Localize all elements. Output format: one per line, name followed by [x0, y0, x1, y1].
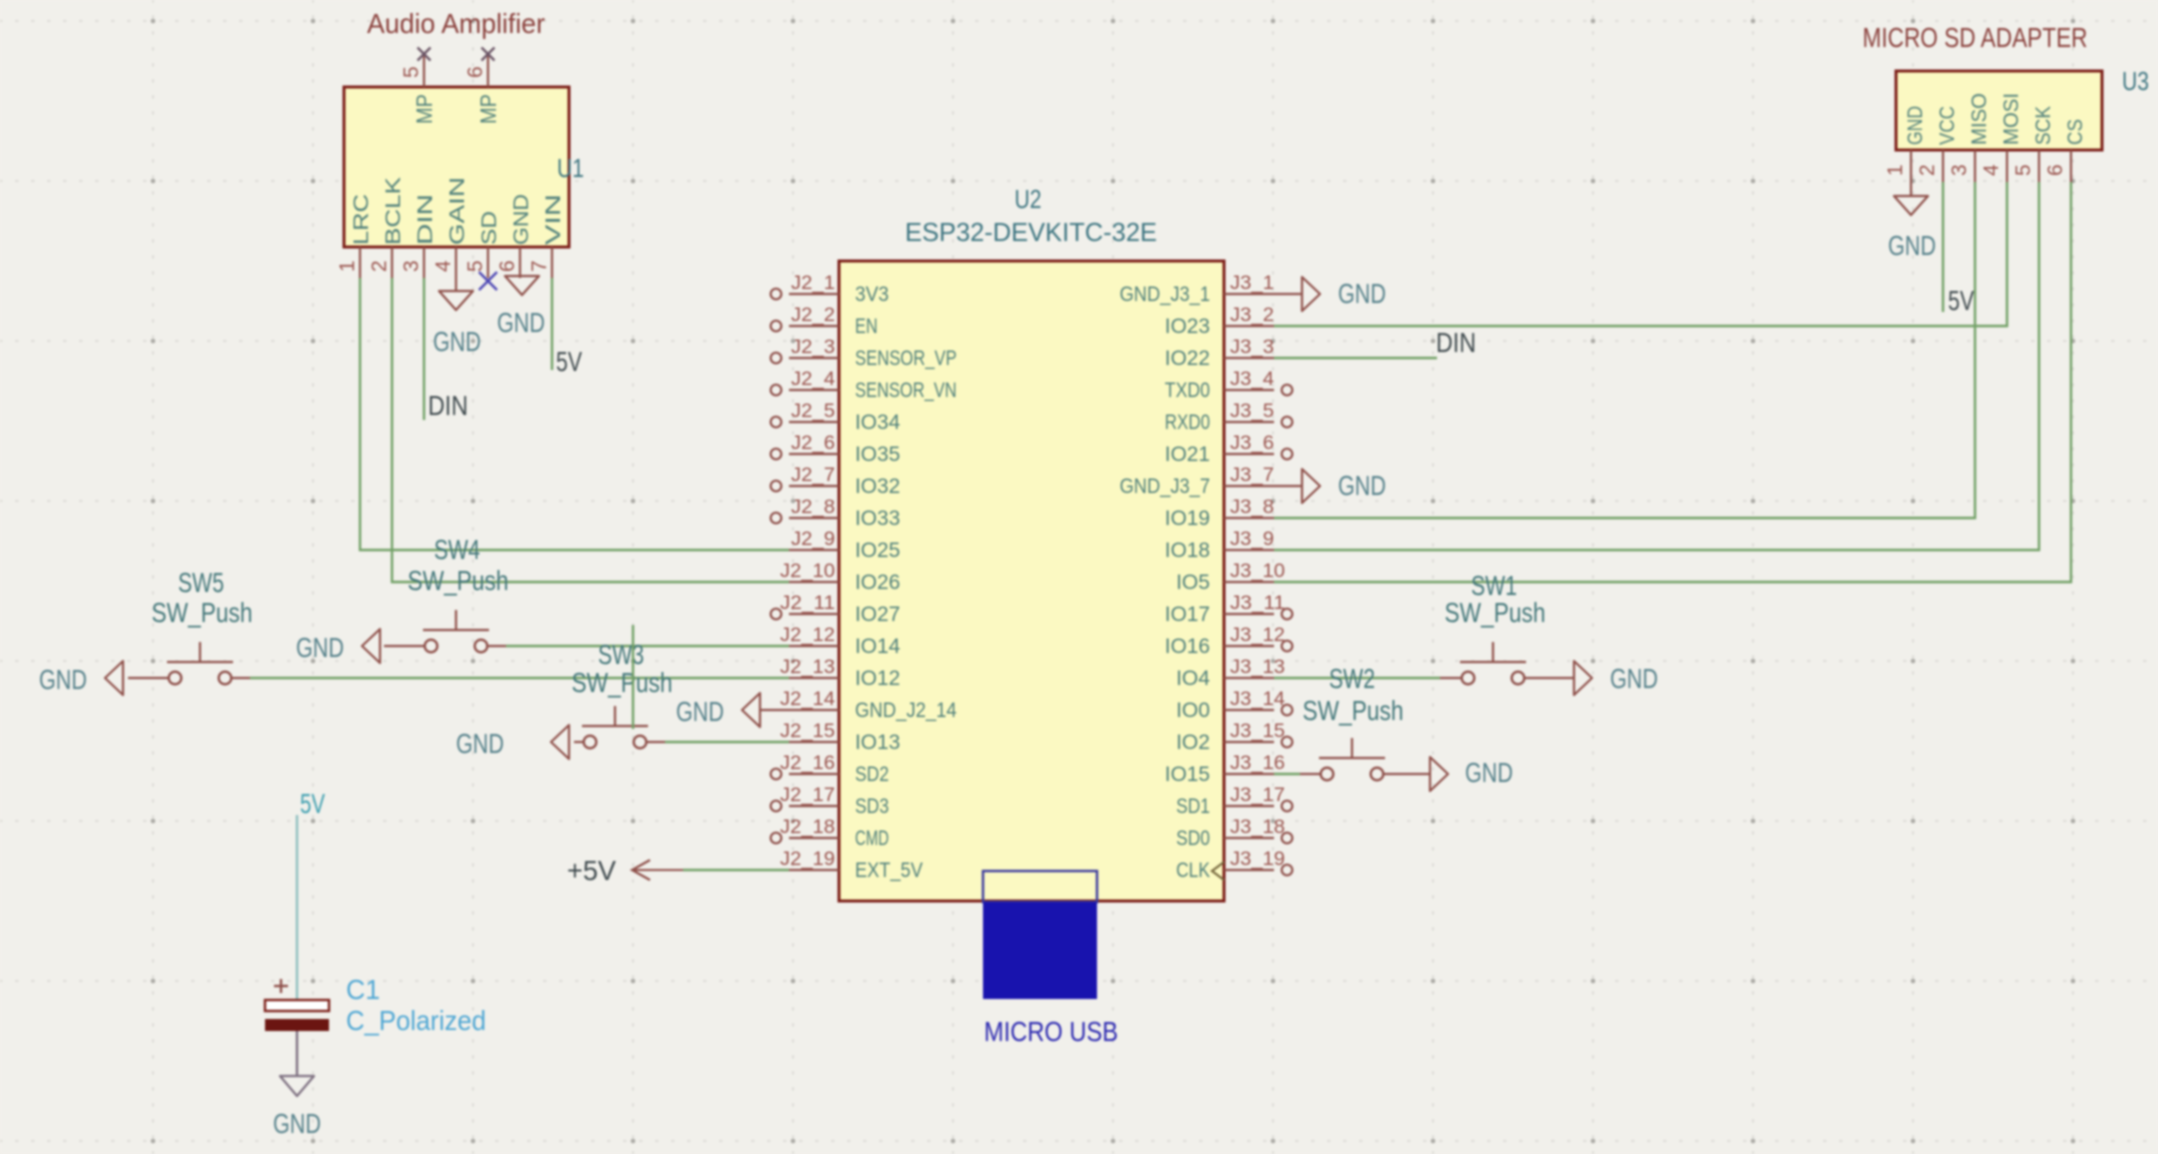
svg-text:SW4: SW4 — [434, 534, 480, 565]
svg-text:J2_8: J2_8 — [791, 496, 835, 518]
node DIN (left) — [428, 390, 468, 421]
connector U3 MICRO SD ADAPTER title — [1863, 22, 2088, 53]
svg-text:J2_4: J2_4 — [791, 368, 835, 390]
switch SW4 symbol — [423, 610, 489, 652]
svg-text:3: 3 — [400, 260, 423, 272]
svg-text:2: 2 — [1916, 164, 1939, 176]
IC U2 pin J3_15 IO2 — [1176, 720, 1292, 754]
svg-text:GND: GND — [510, 194, 533, 245]
wire BCLK to U2 IO26 — [392, 278, 789, 582]
svg-text:GAIN: GAIN — [446, 177, 469, 245]
svg-text:U1: U1 — [557, 153, 584, 183]
svg-text:J2_2: J2_2 — [791, 304, 835, 326]
connector U3 pin 2 VCC — [1916, 106, 1959, 182]
wire U1 VIN to 5V — [551, 278, 553, 370]
ground label GND (SW5) — [39, 664, 87, 695]
wire IO4 to SW1 — [1274, 677, 1440, 679]
svg-text:IO13: IO13 — [855, 731, 900, 754]
svg-text:IO16: IO16 — [1165, 635, 1210, 658]
wire U1 DIN net stub — [423, 278, 425, 420]
IC U2 pin J3_1 GND_J3_1 — [1120, 272, 1274, 306]
ground GND J3_1 — [1302, 277, 1320, 311]
svg-text:GND: GND — [1338, 470, 1386, 501]
svg-text:IO12: IO12 — [855, 667, 900, 690]
svg-text:MP: MP — [412, 94, 437, 124]
ground label GND (J2_14) — [676, 696, 724, 727]
wire 5V to C1 — [296, 815, 298, 1000]
svg-text:IO5: IO5 — [1176, 571, 1210, 594]
ground label GND (U1 GAIN) — [433, 326, 481, 357]
svg-text:5: 5 — [464, 260, 487, 272]
svg-text:J2_14: J2_14 — [780, 688, 835, 710]
svg-text:J2_15: J2_15 — [780, 720, 835, 742]
IC U2 pin J2_9 IO25 — [789, 528, 900, 562]
node 5V (U3 VCC) — [1948, 285, 1975, 316]
IC U2 pin J2_15 IO13 — [780, 720, 900, 754]
svg-text:IO14: IO14 — [855, 635, 901, 658]
IC U2 pin J3_13 IO4 — [1176, 656, 1285, 690]
no-connect flag U1 pin 5 — [418, 48, 431, 61]
svg-text:GND: GND — [1888, 230, 1936, 261]
svg-text:DIN: DIN — [414, 194, 437, 245]
IC U2 pin J2_5 IO34 — [771, 400, 901, 434]
IC U2 body — [839, 261, 1224, 901]
op-amp U1 body — [344, 87, 569, 247]
svg-text:2: 2 — [368, 260, 391, 272]
op-amp U1 pin 2 BCLK — [368, 177, 405, 278]
svg-text:5V: 5V — [556, 346, 583, 377]
svg-text:GND_J3_1: GND_J3_1 — [1120, 283, 1210, 306]
svg-text:MICRO USB: MICRO USB — [984, 1016, 1118, 1047]
svg-text:SW5: SW5 — [178, 567, 224, 598]
connector U3 pin 4 MOSI — [1980, 93, 2023, 182]
wire SW5 left lead to ground — [128, 677, 169, 679]
svg-text:MICRO SD ADAPTER: MICRO SD ADAPTER — [1863, 22, 2088, 53]
svg-text:CMD: CMD — [855, 827, 889, 850]
svg-text:IO15: IO15 — [1165, 763, 1210, 786]
wire IO15 to SW2 — [1274, 773, 1300, 775]
IC U2 pin J2_19 EXT_5V — [780, 848, 923, 882]
svg-text:IO17: IO17 — [1165, 603, 1210, 626]
connector MICRO USB label — [984, 1016, 1118, 1047]
svg-text:J2_11: J2_11 — [780, 592, 835, 614]
svg-text:IO22: IO22 — [1165, 347, 1210, 370]
svg-text:GND: GND — [456, 728, 504, 759]
op-amp U1 pin 4 GAIN — [432, 177, 469, 278]
ground GND SW4 — [362, 629, 380, 663]
wire U3 GND pin to ground — [1910, 182, 1912, 196]
ground GND J2_14 — [742, 693, 760, 727]
svg-text:1: 1 — [1884, 164, 1907, 176]
ground U1 GAIN — [439, 291, 473, 310]
svg-text:J3_13: J3_13 — [1230, 656, 1285, 678]
IC U2 pin J3_9 IO18 — [1165, 528, 1274, 562]
op-amp U1 pin 3 DIN — [400, 194, 437, 278]
svg-text:J2_13: J2_13 — [780, 656, 835, 678]
svg-text:5: 5 — [2012, 164, 2035, 176]
svg-text:4: 4 — [432, 260, 455, 272]
svg-text:SD2: SD2 — [855, 763, 889, 786]
svg-text:J3_7: J3_7 — [1230, 464, 1274, 486]
svg-text:CLK: CLK — [1176, 859, 1210, 882]
switch SW4 value SW_Push — [408, 565, 509, 596]
wire SW3 left lead to ground — [574, 741, 584, 743]
svg-text:IO2: IO2 — [1176, 731, 1210, 754]
ground GND SW1 — [1574, 661, 1592, 695]
svg-text:GND: GND — [39, 664, 87, 695]
svg-text:GND: GND — [1338, 278, 1386, 309]
IC U2 pin J2_3 SENSOR_VP — [771, 336, 957, 370]
svg-text:6: 6 — [496, 260, 519, 272]
wire J3_1 to ground — [1274, 293, 1302, 295]
op-amp U1 top pin 6 MP — [464, 54, 501, 124]
IC U2 pin J2_7 IO32 — [771, 464, 901, 498]
IC U2 pin J2_2 EN — [771, 304, 878, 338]
capacitor C1 value C_Polarized — [346, 1005, 486, 1036]
svg-text:J3_16: J3_16 — [1230, 752, 1285, 774]
svg-text:J3_11: J3_11 — [1230, 592, 1285, 614]
svg-text:3: 3 — [1948, 164, 1971, 176]
IC U2 pin J3_12 IO16 — [1165, 624, 1292, 658]
svg-text:J2_1: J2_1 — [791, 272, 835, 294]
wire IO19 to U3 MISO — [1274, 182, 1975, 518]
svg-text:GND_J2_14: GND_J2_14 — [855, 699, 957, 722]
ground label GND (SW4) — [296, 632, 344, 663]
svg-text:GND: GND — [497, 307, 545, 338]
svg-text:IO23: IO23 — [1165, 315, 1210, 338]
svg-text:DIN: DIN — [428, 390, 468, 421]
svg-text:MOSI: MOSI — [2000, 93, 2023, 145]
switch SW5 reference label — [178, 567, 224, 598]
svg-text:6: 6 — [2044, 164, 2067, 176]
node DIN (right) — [1436, 327, 1476, 358]
svg-text:C_Polarized: C_Polarized — [346, 1005, 486, 1036]
svg-text:IO33: IO33 — [855, 507, 900, 530]
svg-text:6: 6 — [464, 66, 487, 78]
svg-text:IO18: IO18 — [1165, 539, 1210, 562]
IC U2 pin J2_1 3V3 — [771, 272, 889, 306]
ground label GND (SW1) — [1610, 663, 1658, 694]
svg-text:5V: 5V — [1948, 285, 1975, 316]
connector U3 pin 3 MISO — [1948, 93, 1991, 182]
svg-text:GND_J3_7: GND_J3_7 — [1120, 475, 1210, 498]
svg-text:1: 1 — [336, 260, 359, 272]
wire SW1 left lead — [1440, 677, 1462, 679]
ground U3 GND — [1894, 196, 1928, 215]
ground label GND (SW3) — [456, 728, 504, 759]
ground C1 — [280, 1076, 314, 1096]
op-amp U1 top pin 5 MP — [400, 54, 437, 124]
IC U2 pin J3_14 IO0 — [1176, 688, 1292, 722]
wire J2_14 to ground — [760, 709, 789, 711]
svg-text:J2_16: J2_16 — [780, 752, 835, 774]
svg-text:ESP32-DEVKITC-32E: ESP32-DEVKITC-32E — [905, 217, 1157, 247]
svg-text:J2_9: J2_9 — [791, 528, 835, 550]
svg-text:IO0: IO0 — [1176, 699, 1210, 722]
wire U3 VCC to 5V — [1942, 182, 1944, 312]
svg-text:J3_2: J3_2 — [1230, 304, 1274, 326]
ground label GND (U3) — [1888, 230, 1936, 261]
wire U1 GAIN to ground — [455, 278, 457, 291]
svg-text:J2_10: J2_10 — [780, 560, 835, 582]
node 5V (C1) — [300, 788, 325, 819]
IC U2 pin J3_2 IO23 — [1165, 304, 1274, 338]
svg-text:J3_15: J3_15 — [1230, 720, 1285, 742]
switch SW3 value SW_Push — [572, 667, 673, 698]
svg-text:SD: SD — [478, 211, 501, 245]
op-amp U1 pin 1 LRC — [336, 194, 373, 278]
IC U2 pin J3_16 IO15 — [1165, 752, 1285, 786]
svg-text:MISO: MISO — [1968, 93, 1991, 145]
svg-text:J2_6: J2_6 — [791, 432, 835, 454]
svg-text:4: 4 — [1980, 164, 2003, 176]
svg-text:J2_18: J2_18 — [780, 816, 835, 838]
IC U2 value ESP32-DEVKITC-32E — [905, 217, 1157, 247]
svg-text:GND: GND — [296, 632, 344, 663]
ground label GND (U1 pin6) — [497, 307, 545, 338]
switch SW1 reference label — [1471, 570, 1517, 601]
svg-text:LRC: LRC — [350, 194, 373, 245]
switch SW2 symbol — [1319, 738, 1385, 780]
IC U2 pin J3_19 CLK input arrow decoration — [1212, 862, 1224, 880]
connector MICRO USB body — [983, 902, 1097, 999]
svg-text:MP: MP — [476, 94, 501, 124]
wire SW2 right lead to ground — [1383, 773, 1431, 775]
svg-text:EXT_5V: EXT_5V — [855, 859, 923, 882]
IC U2 pin J2_18 CMD — [771, 816, 889, 850]
wire IO5 to U3 CS — [1274, 182, 2071, 582]
svg-text:J3_3: J3_3 — [1230, 336, 1274, 358]
svg-text:SENSOR_VN: SENSOR_VN — [855, 379, 957, 402]
svg-text:J2_7: J2_7 — [791, 464, 835, 486]
capacitor C1 symbol — [265, 979, 329, 1031]
wire SW4 to U2 IO14 — [487, 645, 789, 647]
svg-text:SW3: SW3 — [598, 639, 644, 670]
IC U2 pin J2_11 IO27 — [771, 592, 901, 626]
wire J2_19 EXT_5V to +5V label — [683, 869, 789, 871]
ground GND SW5 — [105, 661, 123, 695]
IC U2 pin J2_4 SENSOR_VN — [771, 368, 957, 402]
svg-text:J3_12: J3_12 — [1230, 624, 1285, 646]
svg-text:SW_Push: SW_Push — [572, 667, 673, 698]
svg-text:SW2: SW2 — [1329, 663, 1375, 694]
svg-text:GND: GND — [1904, 106, 1927, 145]
svg-text:J2_12: J2_12 — [780, 624, 835, 646]
IC U2 pin J2_12 IO14 — [780, 624, 901, 658]
connector U3 body — [1896, 71, 2102, 150]
ground label GND (C1) — [273, 1108, 321, 1139]
connector MICRO USB outline — [983, 871, 1097, 902]
svg-text:J2_3: J2_3 — [791, 336, 835, 358]
no-connect flag U1 SD pin 5 — [479, 272, 497, 290]
IC U2 pin J2_14 GND_J2_14 — [780, 688, 957, 722]
svg-text:SENSOR_VP: SENSOR_VP — [855, 347, 957, 370]
svg-text:SW_Push: SW_Push — [1445, 597, 1546, 628]
svg-text:J3_6: J3_6 — [1230, 432, 1274, 454]
svg-text:RXD0: RXD0 — [1165, 411, 1210, 434]
svg-text:GND: GND — [1465, 757, 1513, 788]
switch SW3 reference label — [598, 639, 644, 670]
wire SW2 left lead — [1300, 773, 1321, 775]
IC U2 pin J2_8 IO33 — [771, 496, 901, 530]
ground GND SW3 — [551, 725, 569, 759]
IC U2 pin J3_5 RXD0 — [1165, 400, 1292, 434]
svg-text:IO34: IO34 — [855, 411, 901, 434]
svg-text:J3_17: J3_17 — [1230, 784, 1285, 806]
switch SW4 reference label — [434, 534, 480, 565]
IC U2 pin J3_4 TXD0 — [1165, 368, 1292, 402]
svg-text:VIN: VIN — [542, 194, 565, 245]
svg-text:3V3: 3V3 — [855, 283, 889, 306]
IC U2 pin J3_3 IO22 — [1165, 336, 1274, 370]
svg-text:U2: U2 — [1015, 184, 1042, 214]
IC U2 pin J2_13 IO12 — [780, 656, 900, 690]
svg-text:VCC: VCC — [1936, 106, 1959, 145]
wire IO23 to U3 MOSI — [1274, 182, 2007, 326]
IC U2 pin J2_10 IO26 — [780, 560, 900, 594]
op-amp U1 pin 6 GND — [496, 194, 533, 278]
svg-text:GND: GND — [1610, 663, 1658, 694]
wire LRC to U2 IO25 — [360, 278, 789, 550]
wire SW1 right lead to ground — [1524, 677, 1575, 679]
svg-text:Audio Amplifier: Audio Amplifier — [367, 8, 545, 39]
IC U2 pin J3_19 CLK — [1176, 848, 1292, 882]
IC U2 pin J3_7 GND_J3_7 — [1120, 464, 1274, 498]
IC U2 pin J3_11 IO17 — [1165, 592, 1292, 626]
IC U2 pin J2_17 SD3 — [771, 784, 889, 818]
svg-text:BCLK: BCLK — [382, 177, 405, 245]
svg-text:SW_Push: SW_Push — [1303, 695, 1404, 726]
svg-text:J3_18: J3_18 — [1230, 816, 1285, 838]
svg-text:+5V: +5V — [567, 855, 616, 886]
svg-text:J3_5: J3_5 — [1230, 400, 1274, 422]
op-amp U1 pin 7 VIN — [528, 194, 565, 278]
svg-text:J3_9: J3_9 — [1230, 528, 1274, 550]
connector U3 pin 5 SCK — [2012, 106, 2055, 182]
connector U3 reference U3 — [2122, 66, 2149, 96]
svg-text:J3_14: J3_14 — [1230, 688, 1285, 710]
wire IO18 to U3 SCK — [1274, 182, 2039, 550]
switch SW2 reference label — [1329, 663, 1375, 694]
svg-text:GND: GND — [433, 326, 481, 357]
capacitor C1 reference C1 — [346, 974, 380, 1005]
ground label GND (SW2) — [1465, 757, 1513, 788]
IC U2 pin J3_10 IO5 — [1176, 560, 1285, 594]
svg-text:GND: GND — [676, 696, 724, 727]
svg-text:J2_5: J2_5 — [791, 400, 835, 422]
svg-text:J3_1: J3_1 — [1230, 272, 1274, 294]
IC U2 pin J2_16 SD2 — [771, 752, 889, 786]
svg-text:IO35: IO35 — [855, 443, 900, 466]
svg-text:J3_8: J3_8 — [1230, 496, 1274, 518]
switch SW3 symbol — [582, 706, 648, 748]
svg-text:CS: CS — [2064, 119, 2087, 145]
IC U2 pin J3_17 SD1 — [1176, 784, 1292, 818]
svg-text:IO27: IO27 — [855, 603, 900, 626]
svg-text:SCK: SCK — [2032, 106, 2055, 145]
svg-text:SD3: SD3 — [855, 795, 889, 818]
svg-text:5: 5 — [400, 66, 423, 78]
ground GND J3_7 — [1302, 469, 1320, 503]
svg-text:IO32: IO32 — [855, 475, 900, 498]
svg-text:7: 7 — [528, 260, 551, 272]
connector U3 pin 6 CS — [2044, 119, 2087, 182]
svg-text:C1: C1 — [346, 974, 380, 1005]
ground label GND (J3_7) — [1338, 470, 1386, 501]
svg-text:IO21: IO21 — [1165, 443, 1210, 466]
switch SW1 value SW_Push — [1445, 597, 1546, 628]
ground label GND (J3_1) — [1338, 278, 1386, 309]
svg-text:J3_19: J3_19 — [1230, 848, 1285, 870]
svg-text:IO25: IO25 — [855, 539, 900, 562]
IC U2 pin J3_18 SD0 — [1176, 816, 1292, 850]
svg-text:SD1: SD1 — [1176, 795, 1210, 818]
svg-text:J2_17: J2_17 — [780, 784, 835, 806]
svg-text:IO26: IO26 — [855, 571, 900, 594]
wire IO22 DIN net — [1274, 357, 1437, 359]
svg-text:EN: EN — [855, 315, 878, 338]
wire C1 to ground — [296, 1031, 298, 1076]
svg-text:J3_4: J3_4 — [1230, 368, 1274, 390]
wire SW3 to U2 IO13 — [646, 741, 789, 743]
svg-text:J2_19: J2_19 — [780, 848, 835, 870]
ground GND SW2 — [1430, 757, 1448, 791]
connector U3 pin 1 GND — [1884, 106, 1927, 182]
switch SW5 symbol — [167, 642, 233, 684]
IC U2 reference U2 — [1015, 184, 1042, 214]
svg-text:J3_10: J3_10 — [1230, 560, 1285, 582]
wire J3_7 to ground — [1274, 485, 1302, 487]
svg-text:5V: 5V — [300, 788, 325, 819]
IC U2 pin J2_6 IO35 — [771, 432, 901, 466]
svg-text:TXD0: TXD0 — [1165, 379, 1210, 402]
no-connect flag U1 pin 6 — [482, 48, 495, 61]
wire stray vertical at SW3 — [632, 625, 634, 729]
switch SW5 value SW_Push — [152, 597, 253, 628]
op-amp U1 pin 5 SD — [464, 211, 501, 278]
svg-text:DIN: DIN — [1436, 327, 1476, 358]
op-amp U1 reference U1 — [557, 153, 584, 183]
svg-text:IO19: IO19 — [1165, 507, 1210, 530]
wire SW4 left lead to ground — [384, 645, 425, 647]
node +5V global label — [567, 855, 683, 886]
svg-text:IO4: IO4 — [1176, 667, 1210, 690]
wire SW5 to U2 IO12 — [231, 677, 789, 679]
svg-text:GND: GND — [273, 1108, 321, 1139]
svg-text:U3: U3 — [2122, 66, 2149, 96]
svg-text:SD0: SD0 — [1176, 827, 1210, 850]
ground U1 GND pin — [505, 276, 539, 295]
svg-text:SW_Push: SW_Push — [152, 597, 253, 628]
switch SW2 value SW_Push — [1303, 695, 1404, 726]
op-amp U1 Audio Amplifier title — [367, 8, 545, 39]
switch SW1 symbol — [1460, 642, 1526, 684]
IC U2 pin J3_8 IO19 — [1165, 496, 1274, 530]
node 5V (U1 VIN) — [556, 346, 583, 377]
svg-text:SW_Push: SW_Push — [408, 565, 509, 596]
IC U2 pin J3_6 IO21 — [1165, 432, 1292, 466]
